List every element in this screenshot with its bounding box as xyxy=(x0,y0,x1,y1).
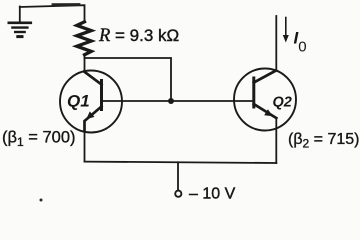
wire branch resistor to base node xyxy=(85,58,172,100)
node junction dot xyxy=(168,98,174,104)
wire bottom rail xyxy=(85,162,277,163)
transistor Q1 xyxy=(60,71,122,133)
terminal -10V xyxy=(175,162,181,196)
wire Q2 emitter down to rail xyxy=(275,118,277,163)
resistor R1 xyxy=(77,22,92,55)
ground xyxy=(9,7,31,37)
svg-text:I0: I0 xyxy=(294,28,307,55)
wire smear on top wire xyxy=(53,3,79,6)
wire base line Q1 to Q2 xyxy=(103,100,253,102)
current arrow I0 xyxy=(283,18,289,43)
wire Q1 emitter down xyxy=(84,131,86,162)
speck xyxy=(40,199,43,202)
svg-text:Q1: Q1 xyxy=(67,92,90,111)
svg-text:Q2: Q2 xyxy=(273,95,292,111)
wire Q2 collector up xyxy=(275,16,277,71)
svg-text:R = 9.3 kΩ: R = 9.3 kΩ xyxy=(98,26,179,46)
wire resistor bottom to Q1 collector xyxy=(84,56,86,73)
svg-text:(β1 = 700): (β1 = 700) xyxy=(2,129,76,150)
wire ground to resistor top xyxy=(20,5,85,22)
svg-text:– 10 V: – 10 V xyxy=(189,186,236,203)
svg-text:(β2 = 715): (β2 = 715) xyxy=(288,131,359,151)
transistor Q2 xyxy=(234,69,296,131)
